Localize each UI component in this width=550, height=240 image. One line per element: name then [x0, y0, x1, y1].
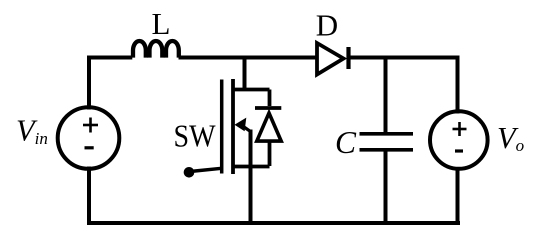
svg-text:Vo: Vo [497, 121, 524, 155]
svg-text:C: C [335, 125, 357, 160]
svg-text:SW: SW [174, 119, 216, 154]
svg-text:L: L [152, 6, 171, 41]
svg-text:D: D [316, 8, 338, 43]
svg-text:Vin: Vin [16, 114, 48, 148]
